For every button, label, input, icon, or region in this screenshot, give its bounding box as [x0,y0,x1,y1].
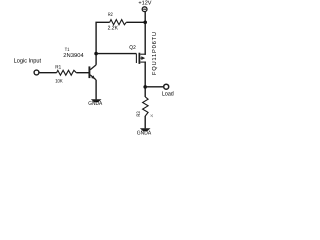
wire: junction down to R3 [144,87,146,97]
ground GNDA (R3) [140,128,151,131]
svg-text:GNDA: GNDA [88,101,102,107]
wire: R2 to +12V rail [126,21,145,23]
ground GNDA (T1 emitter) [91,99,102,102]
wire: input terminal to R1 [39,72,56,74]
wire: Q2 drain down to load junction [144,62,146,88]
node: +12V / R2 junction [143,21,147,25]
wire: R1 to T1 base [76,72,88,74]
svg-text:Load: Load [162,91,174,98]
transistor T1 [89,65,96,80]
svg-text:Logic Input: Logic Input [14,57,42,64]
wire: rail down to Q2 source [144,22,146,55]
svg-text:R1: R1 [55,64,61,70]
terminal: Logic Input [34,70,39,75]
svg-text:2.2K: 2.2K [108,25,119,31]
svg-text:R2: R2 [108,12,113,18]
power +12V symbol [142,7,147,22]
terminal: Load [164,84,169,89]
svg-text:2N3904: 2N3904 [63,53,83,59]
svg-text:GNDA: GNDA [137,130,152,136]
wire: R3 to ground [144,116,146,129]
wire: collector up and over to R2 [96,22,110,65]
node: drain/load junction [143,85,147,89]
svg-text:10K: 10K [55,78,63,84]
node: collector/gate junction [94,52,98,56]
svg-text:+12V: +12V [138,0,151,6]
wire: T1 emitter down to ground [95,80,97,100]
svg-text:R3: R3 [136,111,142,116]
svg-text:1K: 1K [150,114,154,117]
mosfet Q2 [136,53,145,64]
resistor R2 [110,20,127,25]
wire: junction to Q2 gate [96,53,136,55]
svg-text:Q2: Q2 [129,45,136,51]
resistor R1 [57,70,77,75]
resistor R3 [143,97,149,116]
wire: junction to Load terminal [145,86,164,88]
svg-text:FQU11P06TU: FQU11P06TU [151,32,158,75]
